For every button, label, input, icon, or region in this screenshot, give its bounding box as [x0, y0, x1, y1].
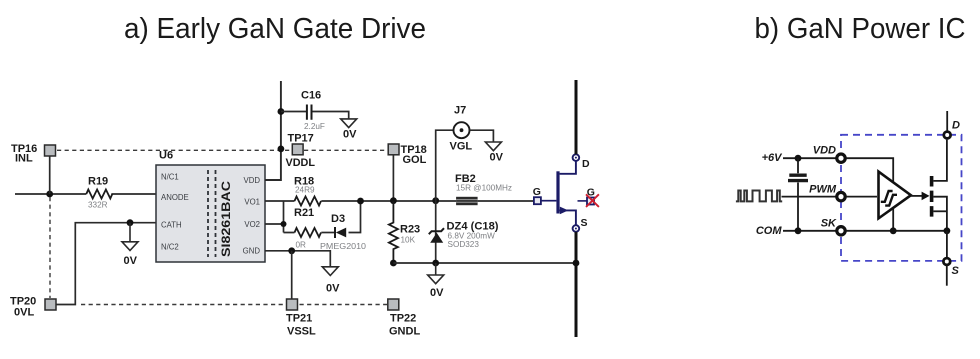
svg-text:VO1: VO1 — [244, 198, 260, 207]
pin VO1 — [244, 198, 260, 207]
node source rail junction — [944, 227, 951, 234]
pin VO2 — [244, 220, 260, 229]
wire TP16 stub — [49, 156, 51, 194]
svg-text:0V: 0V — [490, 152, 504, 164]
wire +6V to VDD — [783, 157, 836, 159]
pin N/C2 — [161, 243, 179, 252]
svg-text:PMEG2010: PMEG2010 — [320, 242, 366, 251]
svg-text:GOL: GOL — [403, 154, 427, 166]
node cap bottom — [795, 227, 802, 234]
svg-text:SI8261BAC: SI8261BAC — [221, 181, 233, 257]
node source bus junction — [573, 260, 580, 267]
svg-text:10K: 10K — [401, 236, 416, 245]
terminal S circle — [573, 225, 580, 232]
wire C16 right lead — [313, 112, 349, 119]
label D — [582, 158, 590, 170]
svg-text:0V: 0V — [430, 287, 444, 299]
bus source vertical — [575, 232, 578, 337]
pin ANODE — [161, 193, 189, 202]
capacitor C16 — [307, 105, 312, 120]
label D3 — [320, 213, 366, 251]
label DZ4 — [447, 221, 499, 250]
transistor Q gate lead — [541, 200, 556, 202]
title b — [755, 13, 966, 45]
label R18 — [294, 176, 315, 195]
wire dashed TP20 to TP21 — [81, 304, 286, 306]
label COM — [756, 225, 783, 237]
wire TP20 to CATH — [56, 223, 156, 305]
zener DZ4 — [429, 228, 444, 243]
svg-text:0V: 0V — [343, 129, 357, 141]
svg-text:VO2: VO2 — [244, 220, 260, 229]
svg-text:ANODE: ANODE — [161, 193, 189, 202]
svg-text:15R @100MHz: 15R @100MHz — [456, 184, 512, 193]
svg-text:R23: R23 — [400, 224, 420, 236]
svg-text:0V: 0V — [326, 283, 340, 295]
resistor R19 — [86, 190, 112, 199]
svg-text:2.2uF: 2.2uF — [304, 122, 325, 131]
label U6 — [159, 150, 173, 162]
label TP21 — [286, 313, 316, 338]
svg-text:J7: J7 — [454, 105, 466, 117]
node CATH ground tap — [127, 219, 134, 226]
title a — [124, 13, 426, 45]
node TP17 junction — [278, 146, 285, 153]
svg-text:S: S — [581, 217, 588, 229]
terminal D circle — [573, 154, 580, 161]
capacitor bypass — [788, 158, 808, 231]
svg-text:GNDL: GNDL — [389, 326, 420, 338]
isolation barrier dashed lines — [208, 170, 216, 257]
node buffer rail junction — [890, 227, 897, 234]
terminal SK — [837, 227, 845, 235]
svg-text:C16: C16 — [301, 90, 321, 102]
svg-text:U6: U6 — [159, 150, 173, 162]
testpoint TP22 pad — [388, 299, 399, 310]
label R23 — [400, 224, 420, 245]
svg-text:PWM: PWM — [809, 184, 837, 196]
resistor R21 — [295, 228, 322, 237]
testpoint TP18 pad — [388, 144, 399, 155]
label S — [581, 217, 588, 229]
wire buffer bottom to rail — [892, 209, 894, 231]
node DZ4 bottom — [432, 260, 439, 267]
label TP20 — [10, 296, 36, 319]
terminal S — [943, 258, 950, 265]
wire dashed vertical INL to TP20 — [49, 197, 51, 298]
wire COM to SK — [783, 230, 836, 232]
node DZ4 top junction — [432, 197, 439, 204]
svg-text:SK: SK — [821, 218, 837, 230]
label J7 — [450, 105, 473, 153]
label +6V — [762, 152, 784, 164]
gate pad G — [533, 186, 541, 204]
ground DZ4 0V — [428, 263, 444, 299]
terminal D — [944, 132, 951, 139]
wire C16 left lead — [281, 111, 306, 113]
ground C16 0V — [341, 119, 357, 141]
wire rail to S terminal — [946, 231, 948, 258]
bus drain vertical — [575, 80, 578, 154]
node TP18 gate junction — [390, 197, 397, 204]
svg-text:0VL: 0VL — [14, 307, 34, 319]
wire GND stub — [265, 251, 330, 267]
svg-text:VGL: VGL — [450, 141, 473, 153]
wire drain up — [946, 111, 948, 131]
svg-text:VDDL: VDDL — [286, 157, 316, 169]
label SK — [821, 218, 837, 230]
label TP17 — [286, 133, 316, 170]
wire TP18 to gate line — [392, 155, 394, 201]
connector J7 — [454, 122, 470, 138]
node R23 bottom — [390, 260, 397, 267]
svg-text:VDD: VDD — [813, 145, 836, 157]
wire gate line — [321, 200, 533, 202]
svg-text:TP21: TP21 — [286, 313, 312, 325]
diode D3 — [335, 227, 346, 238]
pin CATH — [161, 221, 182, 230]
resistor R23 — [389, 201, 398, 263]
label TP16 — [11, 143, 37, 165]
ground GND 0V — [322, 267, 340, 295]
pin GND — [243, 247, 261, 256]
label VDD — [813, 145, 836, 157]
wire J7 to ground — [470, 130, 494, 142]
pin N/C1 — [161, 173, 179, 182]
svg-text:VDD: VDD — [244, 176, 261, 185]
svg-text:N/C1: N/C1 — [161, 173, 179, 182]
crossed gate pin — [578, 187, 599, 207]
svg-text:0V: 0V — [124, 255, 138, 267]
node input junction — [46, 191, 53, 198]
mosfet M1 body lead — [933, 197, 947, 231]
wire VDDL rail — [265, 81, 281, 180]
wire PWM input — [782, 196, 836, 198]
mosfet M1 channel segments — [930, 176, 934, 217]
label PWM — [809, 184, 837, 196]
svg-text:COM: COM — [756, 225, 783, 237]
svg-text:N/C2: N/C2 — [161, 243, 179, 252]
wire DZ4 branch — [435, 201, 437, 263]
node GND TP21 tap — [288, 247, 295, 254]
svg-text:a) Early GaN Gate Drive: a) Early GaN Gate Drive — [124, 13, 426, 45]
resistor R18 — [295, 197, 322, 206]
svg-text:TP22: TP22 — [390, 313, 416, 325]
ferrite bead FB2 — [456, 197, 478, 205]
IC U6 body — [156, 165, 265, 262]
wire input line INL — [15, 193, 156, 195]
svg-text:R21: R21 — [294, 207, 314, 219]
node D3 gate junction — [357, 198, 364, 205]
wire SK rail — [847, 230, 947, 232]
transistor Q source lead — [560, 207, 576, 225]
hysteresis glyph — [881, 191, 897, 206]
svg-text:24R9: 24R9 — [295, 186, 315, 195]
wire source down — [946, 266, 948, 286]
svg-text:D3: D3 — [331, 213, 345, 225]
svg-text:SOD323: SOD323 — [448, 240, 480, 249]
svg-text:D: D — [952, 120, 960, 132]
IC boundary dashed box — [841, 135, 962, 261]
label SI8261BAC — [221, 181, 233, 257]
svg-text:CATH: CATH — [161, 221, 182, 230]
svg-text:TP17: TP17 — [288, 133, 314, 145]
label S — [952, 265, 960, 277]
testpoint TP21 pad — [287, 299, 298, 310]
wire D3 to gate line — [349, 201, 361, 233]
mosfet M1 source lead — [933, 210, 947, 212]
terminal PWM — [837, 192, 845, 200]
svg-text:INL: INL — [15, 153, 33, 165]
svg-text:b) GaN Power IC: b) GaN Power IC — [755, 13, 966, 45]
testpoint TP17 pad — [292, 144, 303, 155]
transistor Q channel bar — [556, 171, 559, 213]
label TP22 — [389, 313, 420, 338]
wire buffer output arrow — [911, 192, 930, 201]
node VO2 tie — [281, 221, 287, 227]
wire dashed TP21 to TP22 — [300, 304, 388, 306]
node cap top — [795, 155, 802, 162]
svg-text:R19: R19 — [88, 176, 108, 188]
svg-text:G: G — [533, 186, 541, 198]
ground J7 0V — [485, 142, 503, 164]
wire dashed net INL to TP17 — [57, 149, 292, 151]
pin VDD — [244, 176, 261, 185]
mosfet M1 drain lead — [933, 140, 947, 181]
label FB2 — [455, 173, 512, 193]
wire bottom line to source bus — [393, 262, 576, 264]
label R19 — [88, 176, 108, 210]
svg-text:GND: GND — [243, 247, 261, 256]
svg-text:332R: 332R — [88, 201, 108, 210]
PWM square wave — [736, 191, 782, 202]
wire R21 to D3 — [321, 232, 335, 234]
ground CATH 0V — [122, 223, 138, 267]
wire J7 branch — [436, 130, 454, 201]
wire VDD to buffer top — [847, 158, 894, 182]
svg-text:+6V: +6V — [762, 152, 784, 164]
wire PWM to buffer — [847, 196, 878, 198]
testpoint TP20 pad — [45, 299, 56, 310]
label R21 — [294, 207, 314, 250]
op-amp buffer triangle — [879, 172, 911, 219]
wire VO1 stub and tie — [265, 201, 295, 233]
testpoint TP16 pad — [45, 145, 56, 156]
label D — [952, 120, 960, 132]
transistor Q drain lead — [560, 161, 576, 174]
label TP18 — [401, 144, 427, 166]
svg-text:D: D — [582, 158, 590, 170]
svg-text:VSSL: VSSL — [287, 326, 316, 338]
svg-text:S: S — [952, 265, 960, 277]
wire TP21 stub — [291, 251, 293, 299]
node C16 tap — [278, 108, 285, 115]
wire dashed TP17 to TP18 — [304, 149, 388, 151]
svg-text:0R: 0R — [296, 241, 307, 250]
terminal VDD — [837, 154, 845, 162]
label C16 — [301, 90, 325, 132]
